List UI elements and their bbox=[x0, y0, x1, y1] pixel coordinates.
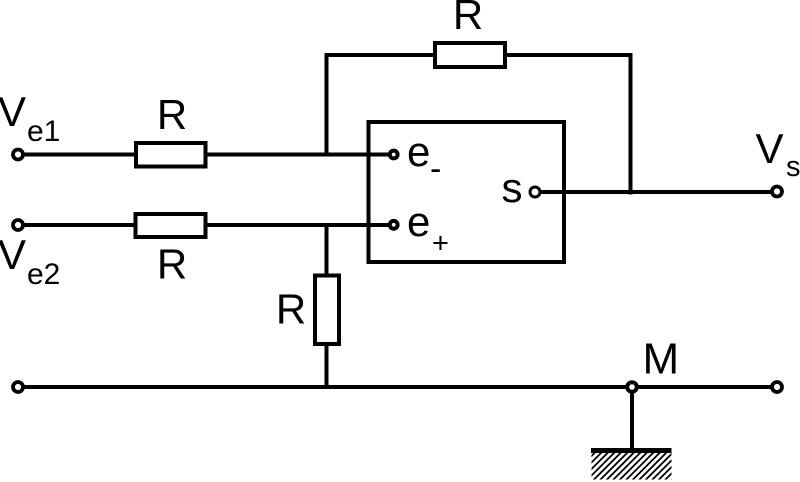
terminal Vs bbox=[772, 187, 782, 197]
ground hatching bbox=[560, 441, 711, 481]
resistor R2 (Ve2 branch) bbox=[136, 214, 206, 237]
svg-text:s: s bbox=[502, 164, 523, 211]
svg-text:R: R bbox=[157, 241, 187, 288]
resistor R4 (to ground) bbox=[315, 276, 339, 345]
svg-text:e: e bbox=[407, 198, 430, 245]
svg-text:V: V bbox=[0, 88, 26, 135]
svg-text:+: + bbox=[432, 228, 449, 260]
wire bottom rail bbox=[18, 385, 777, 389]
wire feedback loop from e- node up over to output bbox=[327, 55, 631, 195]
svg-text:R: R bbox=[276, 286, 306, 333]
pin s bbox=[530, 187, 540, 197]
terminal Ve2 bbox=[13, 220, 23, 230]
terminal bottom right bbox=[772, 382, 782, 392]
pin e+ bbox=[390, 221, 398, 229]
wire e+ node down through R to bottom rail bbox=[325, 225, 329, 387]
resistor R1 (Ve1 branch) bbox=[136, 143, 206, 167]
resistor R3 (feedback) bbox=[435, 43, 505, 67]
svg-text:V: V bbox=[756, 125, 784, 172]
wire Ve1 input to e- pin bbox=[18, 153, 390, 157]
pin e- bbox=[390, 151, 398, 159]
svg-text:e: e bbox=[407, 128, 430, 175]
wire M node to ground bbox=[630, 387, 634, 450]
terminal bottom left bbox=[13, 382, 23, 392]
svg-text:-: - bbox=[430, 150, 441, 188]
svg-text:R: R bbox=[157, 91, 187, 138]
terminal Ve1 bbox=[13, 150, 23, 160]
svg-text:M: M bbox=[643, 335, 680, 384]
wire output s to Vs bbox=[535, 190, 777, 194]
svg-text:e1: e1 bbox=[27, 115, 60, 148]
node M bbox=[627, 382, 637, 392]
wire Ve2 input to e+ pin bbox=[18, 223, 390, 227]
svg-text:R: R bbox=[453, 0, 483, 38]
svg-text:V: V bbox=[0, 231, 26, 278]
op-amp U1 box bbox=[369, 122, 565, 262]
ground bar bbox=[591, 448, 672, 453]
svg-text:s: s bbox=[786, 151, 800, 183]
svg-text:e2: e2 bbox=[27, 258, 60, 291]
